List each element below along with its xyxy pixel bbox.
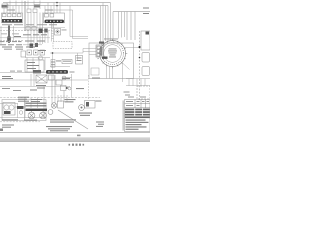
wire mid-left verticals xyxy=(28,23,54,47)
fuse text block xyxy=(18,97,42,102)
wire into plug xyxy=(50,49,96,61)
wire right bus xyxy=(113,11,150,13)
small connectors row xyxy=(21,50,45,57)
receptacle center text xyxy=(108,49,117,58)
connector block X2 label row xyxy=(0,44,22,45)
wire xyxy=(50,66,70,68)
battery B1 box xyxy=(3,103,15,116)
battery feed label xyxy=(2,4,8,8)
junction dots on bus xyxy=(56,2,58,4)
wires bottom-left xyxy=(0,98,46,122)
node label top mid xyxy=(34,5,40,8)
right edge small text xyxy=(143,8,149,15)
right lower ladder xyxy=(126,79,150,86)
table side band xyxy=(123,101,124,131)
RED label xyxy=(99,42,104,44)
junction box JB1 xyxy=(76,56,83,65)
viewer toolbar band xyxy=(0,137,150,142)
small gauge xyxy=(19,111,23,115)
inner enclosure box xyxy=(91,68,99,75)
wire to dashed bus xyxy=(124,47,140,49)
right side dashed harness xyxy=(127,12,140,100)
wire from receptacle bottom xyxy=(107,63,123,82)
wire drops from bus xyxy=(4,1,88,39)
table lower text xyxy=(126,120,149,130)
terminal box TB1 xyxy=(62,60,72,64)
relay K3 xyxy=(55,29,61,36)
fuse cells row 2 xyxy=(27,9,37,13)
table dense rows xyxy=(125,109,150,119)
diode module D1 xyxy=(30,44,34,49)
starter motor blob xyxy=(4,111,11,114)
switch S1 label xyxy=(30,85,46,91)
wire diagonal xyxy=(58,110,88,129)
regulator box xyxy=(85,101,96,109)
text label left xyxy=(2,76,13,79)
wire columns mid xyxy=(28,13,43,32)
lamp L3 xyxy=(51,103,57,109)
wire trunk branches xyxy=(0,26,52,45)
wires bottom-mid verticals xyxy=(52,95,67,103)
accessory box A1 xyxy=(141,31,150,50)
small fuses pair xyxy=(26,27,36,31)
text row under boxes xyxy=(2,23,57,26)
receptacle rim text ring xyxy=(102,43,124,65)
wire receptacle right diag xyxy=(122,63,130,70)
label above receptacle xyxy=(104,38,118,41)
parts table xyxy=(125,100,151,132)
note text block xyxy=(46,119,76,131)
engine label text xyxy=(2,88,21,91)
connector strip CN5 xyxy=(33,70,41,73)
wire label C-15 xyxy=(96,122,104,127)
page corner mark xyxy=(0,129,3,132)
wire bundle to receptacle xyxy=(101,3,125,47)
solenoid block xyxy=(17,106,24,109)
accessory box A2 xyxy=(142,53,150,63)
battery label text xyxy=(2,119,37,127)
accessory box A4 xyxy=(137,86,150,99)
wire long bus left xyxy=(0,73,100,100)
wire top bus 2 xyxy=(3,5,108,7)
lamp L2 xyxy=(40,111,47,119)
BLK label xyxy=(102,57,108,59)
table top labels xyxy=(128,97,146,98)
relay box K1 strip xyxy=(45,20,65,23)
viewer nav icons xyxy=(69,144,85,146)
fuse box F1 strip xyxy=(2,19,22,22)
junction dot xyxy=(139,46,141,48)
regulator label xyxy=(79,101,102,116)
wire label row xyxy=(10,71,22,72)
fan motor M1 xyxy=(36,75,47,83)
diode module D2 xyxy=(35,43,38,47)
connector strip CN2 xyxy=(46,70,68,74)
junction node xyxy=(52,52,54,54)
junction dot xyxy=(139,57,141,59)
table header text xyxy=(126,101,149,106)
flasher label xyxy=(65,99,76,102)
accessory box A3 xyxy=(142,67,150,76)
gauge symbol xyxy=(38,56,43,60)
round receptacle connector J1 xyxy=(100,41,126,67)
engine enclosure xyxy=(2,100,46,121)
alternator G1 xyxy=(49,75,67,80)
lamp L4 xyxy=(48,110,53,115)
diode pack D4 xyxy=(44,29,48,33)
wire bottom border xyxy=(0,132,150,134)
text labels mid xyxy=(62,78,100,90)
harness label text rows xyxy=(26,103,47,107)
harness trunk xyxy=(8,26,10,44)
terminal stack xyxy=(51,60,55,68)
flasher box xyxy=(58,101,64,108)
wire bus row xyxy=(0,37,50,39)
relay box K1 housing xyxy=(44,13,65,23)
dashed harness box xyxy=(53,42,72,49)
sender unit xyxy=(61,78,72,98)
connector plug CN3 xyxy=(96,45,104,57)
text labels mid-left xyxy=(2,34,47,51)
receptacle enclosure box xyxy=(89,43,134,79)
connector strip CN4 xyxy=(26,109,48,111)
control unit box xyxy=(25,60,44,72)
wire mid horizontals xyxy=(25,53,53,72)
wire top bus 1 xyxy=(3,2,111,4)
receptacle pin stubs xyxy=(97,39,127,68)
label above fuse box xyxy=(7,10,53,11)
viewer resize notch xyxy=(77,135,81,137)
horn H1 xyxy=(79,105,85,111)
connector block X1 label row xyxy=(0,41,22,42)
resistor R1 area xyxy=(52,75,62,95)
diode pack D3 xyxy=(39,29,43,34)
wire row under components xyxy=(0,27,65,29)
fuse box F1 housing xyxy=(2,13,23,23)
lamp L1 xyxy=(28,111,35,119)
